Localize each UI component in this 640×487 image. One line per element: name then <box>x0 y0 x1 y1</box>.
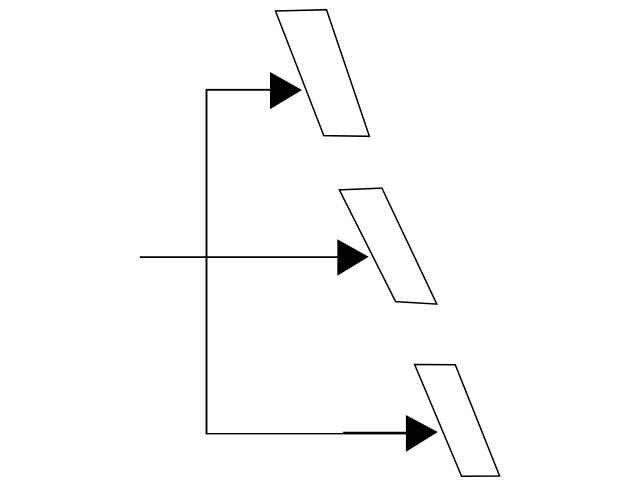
panel P2 <box>339 188 436 304</box>
wire bottom branch thick segment <box>343 432 406 434</box>
wire middle branch <box>140 256 338 258</box>
arrowhead A3 <box>406 415 438 452</box>
arrowhead A2 <box>337 239 368 275</box>
panel P1 <box>276 10 370 137</box>
wire vertical bus <box>206 89 208 434</box>
wire top branch <box>206 89 271 91</box>
panel P3 <box>415 365 500 477</box>
wire bottom branch <box>206 433 405 435</box>
arrowhead A1 <box>270 72 302 109</box>
